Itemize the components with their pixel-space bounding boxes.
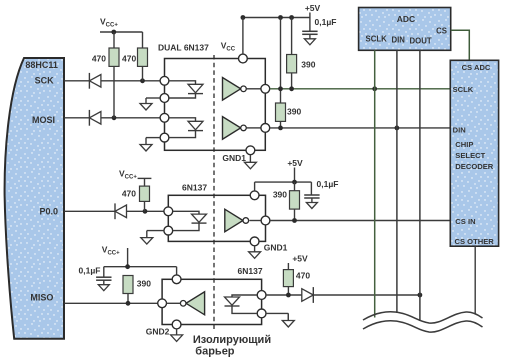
svg-text:барьер: барьер	[195, 346, 235, 358]
svg-text:+5V: +5V	[305, 3, 321, 13]
svg-text:CS: CS	[436, 27, 447, 36]
svg-text:0,1µF: 0,1µF	[79, 266, 101, 276]
svg-text:GND1: GND1	[222, 153, 246, 163]
svg-text:CHIP: CHIP	[455, 140, 473, 149]
svg-text:DOUT: DOUT	[410, 37, 432, 46]
svg-text:390: 390	[287, 107, 301, 117]
svg-text:Изолирующий: Изолирующий	[193, 334, 271, 346]
svg-text:CS IN: CS IN	[455, 217, 475, 226]
svg-text:390: 390	[137, 279, 151, 289]
svg-text:GND2: GND2	[146, 327, 170, 337]
svg-text:SELECT: SELECT	[455, 151, 485, 160]
svg-text:470: 470	[92, 54, 106, 64]
svg-text:DECODER: DECODER	[455, 162, 493, 171]
svg-text:0,1µF: 0,1µF	[317, 179, 339, 189]
svg-text:470: 470	[296, 271, 310, 281]
svg-text:6N137: 6N137	[238, 266, 263, 276]
svg-text:MOSI: MOSI	[32, 115, 55, 125]
svg-text:SCK: SCK	[35, 76, 55, 86]
svg-text:+5V: +5V	[292, 254, 308, 264]
svg-text:DIN: DIN	[392, 36, 406, 45]
svg-text:CS OTHER: CS OTHER	[455, 237, 495, 246]
svg-text:6N137: 6N137	[182, 183, 207, 193]
svg-text:DUAL 6N137: DUAL 6N137	[158, 43, 209, 53]
svg-text:GND1: GND1	[264, 243, 288, 253]
svg-text:ADC: ADC	[397, 14, 415, 24]
svg-text:88HC11: 88HC11	[25, 60, 58, 70]
svg-text:P0.0: P0.0	[39, 207, 58, 217]
svg-text:MISO: MISO	[30, 293, 53, 303]
svg-text:390: 390	[273, 190, 287, 200]
svg-text:470: 470	[122, 54, 136, 64]
svg-text:390: 390	[301, 60, 315, 70]
svg-text:CS ADC: CS ADC	[462, 63, 491, 72]
svg-text:+5V: +5V	[287, 158, 303, 168]
svg-text:470: 470	[122, 189, 136, 199]
svg-text:SCLK: SCLK	[366, 35, 388, 44]
svg-text:SCLK: SCLK	[453, 85, 474, 94]
svg-text:DIN: DIN	[453, 126, 466, 135]
svg-text:0,1µF: 0,1µF	[315, 17, 337, 27]
